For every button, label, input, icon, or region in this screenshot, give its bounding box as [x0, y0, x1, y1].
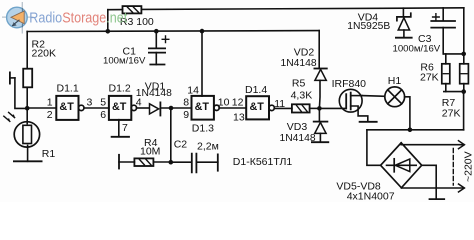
svg-text:RadioStorage.net: RadioStorage.net: [29, 10, 128, 27]
wire D1.2 pin7 ground stub: [112, 120, 129, 137]
zener diode VD4: [396, 8, 412, 38]
resistor R5: [292, 104, 310, 112]
svg-text:3: 3: [87, 96, 93, 108]
svg-text:12: 12: [232, 97, 244, 109]
wire gate node to MOSFET gate: [319, 107, 346, 109]
logic gate D1.3: [192, 96, 220, 120]
svg-text:D1.4: D1.4: [245, 84, 267, 96]
wire top rail right of R3: [141, 8, 463, 10]
svg-text:10: 10: [218, 97, 230, 109]
lamp H1: [385, 87, 405, 107]
gate inner labels: [59, 101, 264, 113]
resistor R4: [119, 155, 171, 169]
svg-text:VD2: VD2: [294, 46, 315, 58]
wire bridge bottom corner to mains arrow: [401, 187, 464, 189]
node rail2-pin14 junction: [200, 29, 205, 34]
node D1.3 input junction: [169, 106, 174, 111]
svg-text:1N4148: 1N4148: [281, 58, 317, 69]
logic gate D1.1: [56, 96, 84, 120]
wire down to bridge left corner: [367, 130, 381, 166]
svg-text:27K: 27K: [442, 107, 461, 119]
resistor R2: [23, 69, 32, 88]
wire top rail left segment: [108, 9, 123, 11]
svg-text:10M: 10M: [140, 146, 160, 158]
svg-text:2,2м: 2,2м: [197, 140, 219, 152]
wire rail2 horizontal: [27, 30, 319, 33]
svg-text:4: 4: [136, 97, 142, 109]
logic gate D1.4: [246, 96, 274, 119]
mains arrow top: [459, 141, 465, 149]
svg-text:D1.1: D1.1: [57, 82, 79, 94]
svg-text:&T: &T: [250, 101, 265, 113]
diode VD1: [150, 102, 161, 115]
svg-text:D1-К561ТЛ1: D1-К561ТЛ1: [233, 156, 293, 168]
wire drain to lamp: [362, 95, 385, 98]
mains dashed link: [452, 149, 454, 186]
wire top rail from R3-left corner down to rail2: [107, 10, 109, 32]
svg-text:D1.3: D1.3: [192, 122, 214, 134]
svg-text:14: 14: [187, 84, 199, 96]
svg-text:&T: &T: [195, 101, 210, 113]
diode VD3: [312, 108, 328, 142]
svg-text:C2: C2: [174, 139, 188, 151]
wire right rail down to R6R7 top bar: [463, 8, 465, 54]
photoresistor R1: [4, 108, 42, 161]
wire lamp to right drop: [405, 97, 410, 130]
transistor Q1 IRF840: [339, 89, 376, 122]
pin numbers: [47, 84, 286, 134]
wire electrode to input junction: [15, 78, 27, 109]
bridge rectifier VD5-VD8: [381, 143, 422, 188]
svg-text:8: 8: [183, 96, 189, 108]
svg-text:220K: 220K: [32, 48, 57, 60]
wire D1.1 out to D1.2: [84, 107, 109, 109]
wire input junction to D1.1: [27, 107, 56, 109]
wire right rail R6R7 to bottom row: [463, 92, 465, 130]
svg-text:100м/16V: 100м/16V: [103, 55, 146, 66]
svg-text:1N5925B: 1N5925B: [347, 21, 390, 32]
svg-text:H1: H1: [388, 75, 402, 87]
node input junction: [25, 106, 30, 111]
svg-text:1: 1: [47, 96, 53, 108]
mains arrow bottom: [459, 184, 465, 192]
svg-text:IRF840: IRF840: [332, 78, 367, 90]
wire bridge right corner: [422, 165, 437, 188]
resistors R6 R7 parallel: [442, 52, 469, 94]
svg-text:R5: R5: [292, 78, 306, 90]
svg-text:R1: R1: [42, 148, 56, 160]
svg-text:27K: 27K: [420, 72, 439, 84]
capacitor C1: [149, 31, 169, 64]
wire VD1 to D1.3: [161, 107, 192, 109]
wire D1.4 out to R5: [274, 107, 292, 109]
svg-text:5: 5: [100, 96, 106, 108]
svg-text:1N4148: 1N4148: [280, 133, 316, 144]
resistor R3: [123, 6, 142, 13]
wire R5 to gate node: [310, 107, 320, 109]
node rail2-C1 junction: [154, 29, 159, 34]
logo icon: [2, 2, 34, 34]
wire R2 bottom stem: [26, 87, 28, 108]
capacitor C2: [171, 154, 218, 173]
svg-text:11: 11: [274, 98, 285, 110]
wire D1.3 out to D1.4: [219, 107, 246, 109]
wire R2 top stem: [26, 32, 28, 69]
svg-text:6: 6: [100, 109, 106, 121]
svg-text:7: 7: [122, 122, 128, 134]
logic gate D1.2: [109, 96, 137, 120]
svg-text:&T: &T: [59, 101, 74, 113]
svg-text:~220V: ~220V: [463, 151, 474, 182]
node lamp bottom junction: [408, 128, 413, 133]
svg-text:1000м/16V: 1000м/16V: [393, 44, 441, 55]
svg-text:2: 2: [47, 109, 53, 121]
node rail2-R3drop junction: [106, 29, 111, 34]
svg-text:4,3K: 4,3K: [291, 89, 313, 101]
svg-text:9: 9: [183, 109, 189, 121]
sensor electrode E1: [10, 72, 15, 83]
node R4-C2 junction: [169, 160, 174, 165]
svg-text:&T: &T: [112, 101, 127, 113]
capacitor C3: [431, 8, 455, 54]
svg-text:4x1N4007: 4x1N4007: [347, 191, 395, 202]
svg-text:D1.2: D1.2: [109, 82, 131, 94]
wire pin14 feed: [201, 31, 203, 96]
svg-text:VD3: VD3: [287, 121, 308, 133]
wire feedback vertical: [170, 108, 172, 162]
ground: [430, 188, 445, 199]
wire bridge top corner to mains arrow: [401, 143, 464, 145]
wire bottom horizontal row: [367, 129, 464, 131]
diode VD2: [314, 31, 326, 109]
wire D1.2 out to VD1: [137, 107, 149, 109]
svg-text:13: 13: [233, 112, 245, 124]
node gate junction: [317, 106, 322, 111]
